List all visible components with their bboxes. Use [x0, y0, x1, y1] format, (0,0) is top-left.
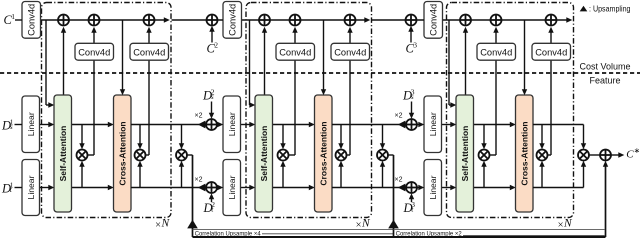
stage 2 cost plus node 2 [290, 15, 301, 26]
inter 1 upsampling triangle on correlation wire [187, 220, 198, 229]
svg-text:Cross-Attention: Cross-Attention [117, 121, 127, 185]
inter 2 correlation upsample label box [394, 229, 605, 237]
svg-text:Conv4d: Conv4d [279, 48, 311, 58]
final wire source row down into hadamard [533, 125, 586, 150]
label C^1 and tick [4, 12, 23, 27]
inter 1 wire source row cross-attention to feature-plus [131, 125, 206, 150]
svg-text:Cost Volume: Cost Volume [579, 61, 630, 71]
stage 2 Linear box source [223, 96, 241, 153]
legend text Upsampling [589, 5, 631, 14]
stage 3 wire hadamard1 to conv4dA to plus2 [489, 27, 499, 155]
stage 2 Conv4d vertical box [223, 2, 242, 39]
svg-text:s: s [211, 92, 214, 101]
svg-text:Conv4d: Conv4d [334, 48, 366, 58]
inter 2 left upsampling triangle target row [398, 184, 406, 192]
svg-text:Conv4d: Conv4d [535, 48, 567, 58]
svg-text:Linear: Linear [26, 112, 36, 136]
label Cost Volume [579, 61, 630, 71]
svg-text:Cross-Attention: Cross-Attention [519, 121, 529, 185]
stage 3 cost plus node 3 [546, 15, 557, 26]
stage 3 wire source row self to cross [474, 122, 516, 149]
stage 3 Self-Attention box [456, 95, 474, 212]
stage 1 wire target row linear to self-attention [40, 185, 55, 190]
svg-text:Self-Attention: Self-Attention [259, 126, 269, 182]
stage 2 wire source row linear to self-attention [241, 122, 256, 127]
svg-text:s: s [411, 92, 414, 101]
svg-text:×2: ×2 [195, 176, 203, 183]
stage 2 dash-dot repeat box [246, 3, 372, 218]
stage 3 wire source row linear to self-attention [442, 122, 457, 127]
stage 1 Conv4d box B [130, 43, 169, 60]
stage 1 cost plus node 2 [89, 15, 100, 26]
inter 2 feature plus node source [406, 119, 417, 130]
svg-text:1: 1 [11, 12, 15, 21]
svg-text:Linear: Linear [26, 175, 36, 199]
stage 2 wire target row linear to self-attention [241, 185, 256, 190]
stage 1 cost volume wire [39, 17, 170, 22]
svg-text:Linear: Linear [227, 175, 237, 199]
inter 1 feature plus node source [206, 119, 217, 130]
inter 2 cost wire across boundary [372, 19, 424, 21]
stage 1 wire hadamard2 to conv4dB to plus3 [145, 27, 152, 155]
inter 2 x2 label target row [395, 176, 403, 183]
inter 1 cost wire across boundary [172, 19, 224, 21]
svg-text:×: × [155, 220, 161, 231]
final wire hadamard to plus [589, 154, 600, 156]
svg-text:Conv4d: Conv4d [26, 4, 36, 36]
stage 2 repeat label xN [356, 218, 371, 231]
stage 2 Linear box target [223, 160, 241, 216]
stage 3 repeat label xN [558, 218, 573, 231]
legend upsampling triangle [580, 6, 588, 12]
stage 2 Conv4d box A [276, 43, 315, 60]
stage 2 wire hadamard1 to conv4dA to plus2 [288, 27, 298, 155]
inter 2 left upsampling triangle source row [398, 121, 406, 129]
stage 2 Self-Attention box [255, 95, 273, 212]
stage 2 wire hadamard2 to conv4dB to plus3 [346, 27, 353, 155]
stage 2 wire target row self to cross [273, 161, 315, 190]
stage 1 wire cost to cross-attention top [120, 20, 125, 95]
inter 1 x2 label source row [195, 113, 203, 120]
stage 3 Conv4d vertical box [424, 2, 443, 39]
stage 1 Linear box target [22, 160, 40, 216]
inter 1 C^2 label and wire [207, 26, 219, 56]
svg-text:Conv4d: Conv4d [78, 48, 110, 58]
stage 3 Linear box source [424, 96, 442, 153]
inter 2 wire feature plus source to next linear [417, 122, 424, 127]
stage 3 hadamard node 2 [537, 150, 548, 161]
stage 3 Linear box target [424, 160, 442, 216]
label C* [626, 146, 640, 160]
svg-text:Self-Attention: Self-Attention [58, 126, 68, 182]
inter 1 x2 label target row [195, 176, 203, 183]
final hadamard node [578, 150, 589, 161]
stage 3 cost volume wire [441, 17, 573, 22]
svg-text:×2: ×2 [395, 113, 403, 120]
stage 3 hadamard node 1 [479, 150, 490, 161]
inter 1 wire target row cross-attention to feature-plus [131, 161, 206, 188]
final plus node [600, 150, 611, 161]
stage 2 wire self-attention output up [262, 27, 267, 95]
stage 3 Conv4d box A [477, 43, 516, 60]
inter 2 feature plus node target [406, 182, 417, 193]
stage 2 Conv4d box B [331, 43, 370, 60]
svg-text:N: N [361, 218, 371, 230]
stage 1 Self-Attention box [54, 95, 72, 212]
svg-text:s: s [10, 122, 13, 131]
stage 1 dash-dot repeat box [42, 3, 172, 218]
stage 1 hadamard node 1 [77, 150, 88, 161]
stage 1 repeat label xN [155, 218, 170, 231]
stage 1 Cross-Attention box [114, 95, 132, 212]
stage 1 Conv4d box A [75, 43, 114, 60]
stage 1 wire source row linear to self-attention [40, 122, 55, 127]
svg-text:3: 3 [413, 41, 417, 50]
svg-text:Cross-Attention: Cross-Attention [318, 121, 328, 185]
final wire correlation path [193, 161, 609, 237]
stage 1 cost plus node 1 [58, 15, 69, 26]
label D_t^1 and tick [1, 180, 22, 195]
stage 2 cost plus node 3 [345, 15, 356, 26]
inter 1 D_t^2 label and wire [203, 193, 216, 215]
svg-text:N: N [161, 218, 171, 230]
inter 2 wire source row cross-attention to feature-plus [332, 125, 406, 150]
inter 2 D_t^3 label and wire [403, 193, 416, 215]
inter 1 left upsampling triangle target row [198, 184, 206, 192]
inter 2 wire feature plus target to next linear [417, 185, 424, 190]
inter 1 left upsampling triangle source row [198, 121, 206, 129]
stage 3 Cross-Attention box [516, 95, 534, 212]
svg-text:Conv4d: Conv4d [480, 48, 512, 58]
stage 1 wire target row self to cross [72, 161, 114, 190]
inter 1 cost plus node [207, 15, 218, 26]
stage 2 hadamard node 2 [336, 150, 347, 161]
stage 3 dash-dot repeat box [447, 3, 574, 218]
stage 2 Cross-Attention box [315, 95, 333, 212]
svg-text:2: 2 [214, 41, 218, 50]
inter 2 C^3 label and wire [406, 26, 418, 56]
stage 2 cost volume wire [240, 17, 371, 22]
inter 2 cost plus node [406, 15, 417, 26]
stage 3 Conv4d box B [532, 43, 571, 60]
stage 2 hadamard node 1 [278, 150, 289, 161]
svg-text:Conv4d: Conv4d [227, 4, 237, 36]
inter 2 D_s^3 label and wire [402, 88, 415, 119]
label D_s^1 and tick [1, 117, 22, 132]
stage 1 Linear box source [22, 96, 40, 153]
svg-text:∗: ∗ [634, 146, 640, 155]
inter 1 feature plus node target [206, 182, 217, 193]
svg-text:×2: ×2 [395, 176, 403, 183]
stage 1 hadamard node 2 [135, 150, 146, 161]
final wire target row up into hadamard [533, 161, 586, 188]
stage 3 wire target row self to cross [474, 161, 516, 190]
dashed separator line between cost volume and feature domains [0, 72, 640, 74]
stage 3 wire self-attention output up [463, 27, 468, 95]
stage 1 wire self-attention output up [61, 27, 66, 95]
stage 3 wire cost to self-attention input [449, 20, 456, 108]
svg-text:Self-Attention: Self-Attention [460, 126, 470, 182]
inter 2 wire hadamard output down to correlation path [387, 155, 393, 237]
inter 2 hadamard node [377, 150, 388, 161]
stage 1 wire source row self to cross [72, 122, 114, 149]
inter 2 upsampling triangle on correlation wire [388, 220, 399, 229]
stage 3 wire target row linear to self-attention [442, 185, 457, 190]
stage 2 wire source row self to cross [273, 122, 315, 149]
inter 1 hadamard node [176, 150, 187, 161]
stage 1 wire cost to self-attention input [46, 20, 54, 108]
svg-text:×2: ×2 [195, 113, 203, 120]
inter 2 wire target row cross-attention to feature-plus [332, 161, 406, 188]
stage 2 cost plus node 1 [259, 15, 270, 26]
svg-text:Linear: Linear [227, 112, 237, 136]
inter 1 wire feature plus target to next linear [217, 185, 223, 190]
stage 1 wire hadamard1 to conv4dA to plus2 [87, 27, 97, 155]
inter 1 correlation upsample label box [193, 229, 394, 237]
svg-text:Linear: Linear [428, 175, 438, 199]
svg-text:Feature: Feature [589, 76, 620, 86]
inter 1 wire hadamard output down to correlation path [186, 155, 192, 237]
stage 3 wire cost to cross-attention top [522, 20, 527, 95]
svg-text:: Upsampling: : Upsampling [589, 5, 631, 14]
svg-text:Linear: Linear [428, 112, 438, 136]
stage 2 wire cost to self-attention input [249, 20, 255, 108]
inter 1 wire feature plus source to next linear [217, 122, 223, 127]
svg-text:N: N [563, 218, 573, 230]
stage 3 cost plus node 1 [460, 15, 471, 26]
stage 3 cost plus node 2 [491, 15, 502, 26]
stage 3 wire hadamard2 to conv4dB to plus3 [547, 27, 554, 155]
svg-text:Conv4d: Conv4d [133, 48, 165, 58]
inter 1 D_s^2 label and wire [202, 88, 215, 119]
stage 1 Conv4d vertical box [22, 2, 41, 39]
label Feature [589, 76, 620, 86]
svg-text:Conv4d: Conv4d [428, 4, 438, 36]
inter 2 x2 label source row [395, 113, 403, 120]
stage 2 wire cost to cross-attention top [321, 20, 326, 95]
final output arrow to C* [611, 152, 624, 157]
stage 1 cost plus node 3 [144, 15, 155, 26]
